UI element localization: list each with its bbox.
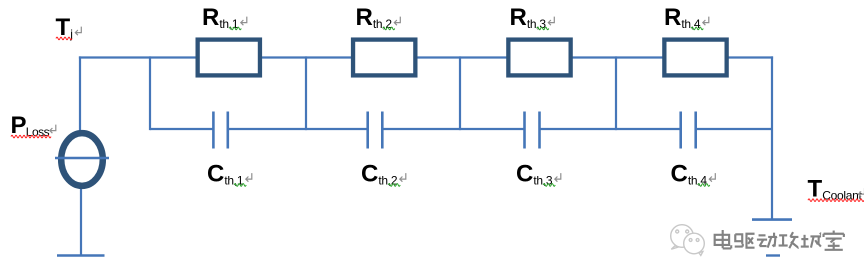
wire: right vertical drop to T_Coolant ground <box>771 56 773 219</box>
current source P_Loss (circle) <box>61 133 103 186</box>
watermark icon (chat bubbles) <box>671 225 705 256</box>
wire: capacitor row segment 3 <box>382 128 524 130</box>
current source horizontal line <box>55 157 109 160</box>
capacitor Cth2 <box>368 112 383 149</box>
svg-text:R: R <box>202 4 219 31</box>
svg-text:R: R <box>510 4 527 31</box>
wire: capacitor row segment 5 <box>696 128 772 130</box>
resistor Rth2 <box>353 40 415 76</box>
svg-text:T: T <box>56 14 71 41</box>
ground: right T_Coolant ground bar 2 (small) <box>766 254 780 256</box>
wire: left vertical from node Tj down to P_Loss source top <box>79 56 81 133</box>
svg-text:C: C <box>207 161 224 188</box>
svg-text:T: T <box>808 176 823 203</box>
ground: left ground bar under P_Loss <box>57 254 105 257</box>
watermark text 电驱动攻城室 (hand-drawn strokes) <box>715 230 732 248</box>
wire: capacitor row segment 4 <box>540 128 681 130</box>
wire: main top rail from Tj node to right drop <box>79 56 773 58</box>
svg-text:C: C <box>671 161 688 188</box>
capacitor Cth1 <box>213 112 227 149</box>
svg-text:C: C <box>361 161 378 188</box>
wire: capacitor row segment 2 <box>228 128 368 130</box>
wire: from P_Loss source bottom to ground <box>80 186 82 255</box>
resistor Rth1 <box>198 40 260 76</box>
resistor Rth4 <box>664 40 726 76</box>
wire: capacitor row segment 1 <box>150 128 213 130</box>
capacitor Cth3 <box>525 112 540 149</box>
wire: node 2 vertical branch <box>305 56 307 130</box>
wire: node 3 vertical branch <box>459 56 461 130</box>
wire: node 1 vertical branch <box>149 56 151 130</box>
resistor Rth3 <box>508 40 570 76</box>
svg-text:C: C <box>516 161 533 188</box>
svg-text:R: R <box>356 4 373 31</box>
ground: right T_Coolant ground bar 1 <box>752 218 792 221</box>
svg-text:R: R <box>664 4 681 31</box>
wire: node 4 vertical branch <box>615 56 617 130</box>
capacitor Cth4 <box>681 112 696 149</box>
